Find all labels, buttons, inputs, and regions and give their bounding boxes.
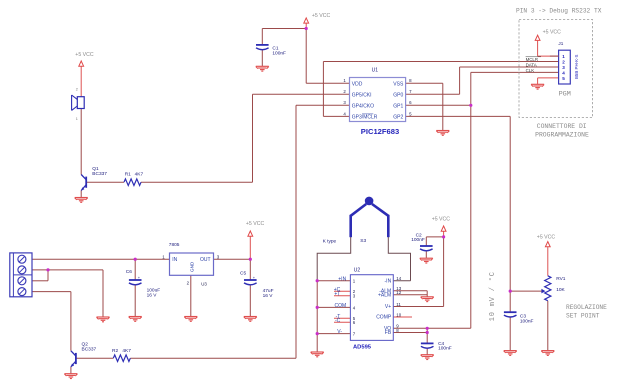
- svg-text:3: 3: [562, 65, 565, 70]
- wire buzzer to Q1 collector: [80, 109, 82, 175]
- wire C5 bottom lead to ground: [249, 285, 251, 317]
- junction V+/C2: [442, 235, 445, 238]
- svg-text:BC337: BC337: [92, 171, 107, 177]
- wire +IN to U2 pin 1: [317, 280, 350, 282]
- wire U2 pin 12 +ALM and tie to ground: [393, 291, 427, 297]
- net label MCLR: [526, 57, 541, 62]
- note PIN 3 debug: [516, 8, 602, 15]
- net label CLK: [526, 68, 535, 73]
- wire +5VCC stem to RV1 top: [547, 247, 549, 276]
- wire C2 branch: [426, 237, 443, 246]
- svg-text:OUT: OUT: [200, 257, 211, 263]
- svg-text:V+: V+: [385, 304, 391, 310]
- wire U2 pin 11 V+ horizontal: [393, 306, 443, 308]
- svg-text:1: 1: [76, 117, 78, 121]
- wire left bus vertical to ground: [316, 281, 318, 352]
- ground under C4: [421, 355, 434, 360]
- U2 pin 3 +T: [334, 291, 355, 298]
- pin stub U2 pin 6 -C: [334, 321, 350, 323]
- wire terminal row2 to ground riser: [32, 270, 103, 317]
- svg-text:-C: -C: [335, 318, 341, 324]
- svg-text:6: 6: [409, 100, 412, 105]
- svg-text:+5 VCC: +5 VCC: [543, 30, 562, 36]
- svg-text:AD595: AD595: [353, 344, 372, 350]
- wire U2 pin 9 VO to CLK riser: [393, 327, 471, 329]
- svg-text:COMP: COMP: [376, 315, 392, 321]
- svg-text:PIN 3 -> Debug RS232 TX: PIN 3 -> Debug RS232 TX: [516, 8, 602, 15]
- svg-text:5: 5: [409, 111, 412, 116]
- ground under C5: [244, 317, 257, 322]
- ground under 7805: [184, 317, 197, 322]
- svg-text:1: 1: [162, 254, 165, 259]
- power +5VCC arrow at node A: [304, 13, 331, 23]
- svg-text:B5B PH-K-S: B5B PH-K-S: [574, 55, 579, 79]
- svg-text:1: 1: [343, 78, 346, 83]
- svg-text:DATA: DATA: [526, 62, 537, 67]
- J1 pin 5: [562, 76, 565, 81]
- svg-text:COM: COM: [335, 303, 347, 309]
- wire 7805 OUT to +5 node: [214, 258, 251, 260]
- svg-text:5: 5: [562, 76, 565, 81]
- op-amp U2 AD595 body: [350, 267, 393, 350]
- wire vertical R1 node to GP5 row: [252, 94, 254, 182]
- U2 pin 13 -ALM: [379, 286, 401, 294]
- svg-text:+T: +T: [334, 291, 340, 297]
- U2 pin 8 FB: [385, 328, 399, 336]
- wire U2 pin 13 -ALM: [393, 290, 427, 292]
- U1 pin 6 GP1: [393, 100, 412, 109]
- svg-text:PIC12F683: PIC12F683: [361, 127, 399, 136]
- power +5VCC arrow above buzzer: [75, 52, 94, 66]
- svg-text:11: 11: [396, 302, 401, 307]
- wire terminal row4 horizontal: [32, 291, 71, 293]
- svg-text:CLK: CLK: [526, 68, 535, 73]
- wire terminal row3 tie to row2: [32, 270, 48, 281]
- svg-text:4: 4: [343, 111, 346, 116]
- wire MCLR vertical riser: [322, 62, 324, 117]
- ground under C3: [504, 351, 517, 356]
- svg-text:Q2: Q2: [82, 342, 89, 348]
- wire GP4 vertical down to R2 row: [295, 105, 297, 358]
- svg-text:GP0: GP0: [393, 92, 403, 98]
- wire +5VCC arrow stem above V+: [443, 231, 445, 237]
- ground under U2 V- bus: [311, 352, 324, 357]
- wire U1 pin 7 GP0 horizontal: [406, 93, 460, 95]
- svg-text:+5 VCC: +5 VCC: [312, 13, 331, 19]
- U1 pin 7 GP0: [393, 89, 412, 98]
- svg-text:3: 3: [343, 100, 346, 105]
- wire node A down to VDD row: [305, 29, 307, 84]
- U2 pin 7 V-: [337, 329, 356, 336]
- wire U1 pin 6 GP1 horizontal: [406, 104, 471, 106]
- svg-text:100uF: 100uF: [147, 287, 161, 293]
- svg-text:+5 VCC: +5 VCC: [432, 217, 451, 223]
- svg-text:S3: S3: [360, 238, 366, 244]
- ground under RV1: [541, 351, 554, 356]
- svg-text:3: 3: [217, 254, 220, 259]
- svg-text:100nF: 100nF: [438, 346, 452, 352]
- resistor R1 4K7: [124, 172, 143, 186]
- pin stub U2 pin 3 +T: [334, 295, 350, 297]
- wire VO/FB tie down to C4: [426, 328, 428, 343]
- U1 pin 3 GP4/CKO: [343, 100, 374, 109]
- node A junction dot: [305, 27, 308, 30]
- svg-text:K type: K type: [323, 238, 337, 244]
- pin stub U2 pin 2 +C: [334, 290, 350, 292]
- svg-text:100nF: 100nF: [520, 318, 534, 324]
- svg-text:C5: C5: [240, 270, 246, 276]
- svg-text:MCLR: MCLR: [526, 57, 538, 62]
- wire C3 bottom lead to ground: [509, 317, 511, 350]
- capacitor C6 100uF polarized: [126, 269, 160, 299]
- svg-text:47uF: 47uF: [263, 288, 274, 294]
- ground under VSS: [436, 131, 449, 136]
- wire C3 top lead: [509, 291, 511, 312]
- wire DATA net to J1 pin 3: [460, 66, 559, 68]
- svg-text:16 V: 16 V: [147, 293, 158, 299]
- ground under Q1: [75, 198, 88, 203]
- U2 pin 4 COM: [335, 303, 356, 310]
- svg-text:V-: V-: [337, 329, 342, 335]
- capacitor C4 100nF: [421, 341, 452, 352]
- svg-text:12: 12: [396, 290, 401, 295]
- J1 pin 4: [562, 70, 565, 75]
- ground under Q2: [64, 374, 77, 379]
- J1 pin 2: [562, 59, 565, 64]
- junction +5 rail node: [249, 258, 252, 261]
- svg-text:+ALM: +ALM: [378, 292, 391, 298]
- wire GP2 vertical down to RV1 row: [509, 116, 511, 291]
- svg-text:R1: R1: [125, 172, 131, 178]
- wire terminal row4 down to Q2 collector: [70, 292, 72, 351]
- svg-text:RV1: RV1: [556, 276, 566, 282]
- svg-text:GP2: GP2: [393, 114, 403, 120]
- U2 pin 2 +C: [334, 287, 356, 294]
- wire +5VCC stem to buzzer: [80, 66, 82, 96]
- wire U1 pin 8 VSS horizontal: [406, 82, 443, 84]
- U1 pin 8 VSS: [393, 78, 412, 87]
- wire thermocouple right leg to -IN: [388, 237, 410, 281]
- pin stub U2 pin 5 -T: [334, 317, 350, 319]
- svg-text:10: 10: [396, 312, 401, 317]
- power +5VCC arrow above 7805 OUT: [246, 221, 265, 236]
- wire J1 pin 5 to ground: [538, 78, 559, 84]
- op-amp U1 PIC12F683 body: [350, 67, 406, 136]
- svg-text:GP4/CKO: GP4/CKO: [352, 103, 374, 109]
- wire V- to U2 pin 7: [317, 333, 350, 335]
- svg-text:+5 VCC: +5 VCC: [537, 235, 556, 241]
- wire R2 to GP4 riser: [130, 357, 296, 359]
- svg-text:100nF: 100nF: [272, 50, 286, 56]
- potentiometer RV1 10K: [541, 276, 565, 301]
- U2 pin 12 +ALM: [378, 290, 402, 298]
- power +5VCC arrow above V+: [432, 217, 451, 232]
- svg-text:2: 2: [187, 281, 190, 286]
- svg-text:2: 2: [343, 89, 346, 94]
- junction COM node: [316, 306, 319, 309]
- wire CLK net to J1 pin 4: [471, 71, 559, 73]
- transistor Q2 BC337: [71, 342, 97, 367]
- note REGOLAZIONE SET POINT: [566, 304, 607, 319]
- svg-text:CONNETTORE DI: CONNETTORE DI: [537, 123, 587, 130]
- junction V- node: [316, 332, 319, 335]
- svg-text:SET POINT: SET POINT: [566, 312, 600, 319]
- svg-text:+5 VCC: +5 VCC: [75, 52, 94, 58]
- ground terminal rows 2-3: [97, 317, 110, 322]
- svg-text:+5 VCC: +5 VCC: [246, 221, 265, 227]
- ground under ALM pins: [421, 297, 434, 302]
- svg-text:VSS: VSS: [393, 81, 404, 87]
- junction GP1/CLK/VO: [469, 104, 472, 107]
- svg-text:7: 7: [409, 89, 412, 94]
- U2 pin 14 -IN: [385, 276, 402, 284]
- wire C2 bottom lead to ground: [425, 251, 427, 258]
- resistor R2 4K7: [112, 348, 131, 361]
- power +5VCC arrow in J1 box: [535, 30, 561, 41]
- note CONNETTORE DI PROGRAMMAZIONE: [535, 123, 589, 139]
- svg-text:GND: GND: [190, 261, 195, 272]
- terminal block J2: [10, 253, 32, 297]
- wire Q1 base to R1: [86, 181, 124, 183]
- wire terminal row1 to 7805 IN: [32, 258, 170, 260]
- svg-text:4: 4: [562, 70, 565, 75]
- wire RV1 bottom to ground: [547, 301, 549, 351]
- U2 pin 1 +IN: [338, 276, 356, 283]
- svg-text:U3: U3: [201, 281, 207, 286]
- power +5VCC arrow above RV1: [537, 235, 556, 247]
- junction terminal rows 2-3: [46, 268, 49, 271]
- capacitor C5 47uF polarized: [240, 270, 274, 299]
- svg-text:8: 8: [409, 78, 412, 83]
- dashed programming box: [519, 20, 593, 118]
- svg-text:4K7: 4K7: [122, 348, 131, 354]
- wire COM to U2 pin 4: [317, 306, 350, 308]
- svg-text:GP1: GP1: [393, 103, 403, 109]
- transistor Q1 BC337: [81, 166, 107, 191]
- wire C1 bottom lead to ground: [261, 50, 263, 66]
- U2 pin 6 -C: [335, 318, 356, 325]
- wire C1 top lead: [261, 29, 263, 45]
- svg-text:GP5/CKI: GP5/CKI: [352, 92, 372, 98]
- wire Q2 base to R2: [76, 357, 113, 359]
- J1 pin 1: [550, 54, 565, 59]
- wire +5VCC arrow stem above OUT node: [249, 236, 251, 259]
- ground under C1: [256, 66, 269, 71]
- capacitor C3 100nF: [504, 312, 534, 324]
- svg-text:VDD: VDD: [352, 81, 363, 87]
- wire GP4 horizontal to U1 pin 3: [296, 104, 350, 106]
- svg-text:C6: C6: [126, 269, 132, 275]
- junction C6 node: [134, 258, 137, 261]
- U2 pin 10 COMP: [376, 312, 402, 320]
- junction +IN node: [316, 279, 319, 282]
- wire C5 top lead: [249, 259, 251, 280]
- svg-text:PROGRAMMAZIONE: PROGRAMMAZIONE: [535, 132, 589, 139]
- U2 pin 9 VO: [384, 324, 399, 332]
- svg-text:U2: U2: [354, 267, 361, 273]
- U1 pin 4 GP3/MCLR: [343, 111, 377, 120]
- connector J1 PGM body: [558, 41, 579, 98]
- wire U2 pin 8 FB: [393, 332, 427, 334]
- svg-text:14: 14: [396, 276, 401, 281]
- note 10 mV / degC: [488, 271, 497, 321]
- ground under C2: [420, 258, 433, 263]
- svg-text:7805: 7805: [169, 242, 180, 248]
- wire C1 to +5VCC node A: [262, 28, 306, 30]
- wire GP5 horizontal to U1 pin 2: [253, 93, 350, 95]
- svg-text:+IN: +IN: [338, 276, 346, 282]
- svg-text:-IN: -IN: [385, 278, 392, 284]
- capacitor C1 100nF: [256, 45, 286, 57]
- svg-text:J1: J1: [558, 41, 563, 46]
- svg-text:FB: FB: [385, 330, 392, 336]
- wire R1 to node under GP5: [141, 181, 253, 183]
- capacitor C2 100nF: [411, 233, 432, 251]
- wire Q2 emitter to ground: [70, 367, 72, 374]
- net label DATA: [526, 62, 537, 67]
- U1 pin 1 VDD: [343, 78, 362, 87]
- J1 pin 3: [562, 65, 565, 70]
- junction GP2/RV1/C3: [509, 290, 512, 293]
- junction VO node: [426, 327, 429, 330]
- svg-text:4K7: 4K7: [135, 172, 144, 178]
- wire U1 pin 5 GP2 horizontal: [406, 115, 511, 117]
- svg-text:10 mV / °C: 10 mV / °C: [488, 271, 497, 321]
- svg-text:IN: IN: [172, 257, 177, 263]
- svg-text:2: 2: [562, 59, 565, 64]
- svg-text:U1: U1: [372, 67, 379, 73]
- U1 pin 5 GP2: [393, 111, 412, 120]
- wire C6 top lead: [134, 259, 136, 280]
- wire RV1 wiper from GP2 node: [510, 290, 542, 292]
- U2 pin 11 V+: [385, 302, 401, 310]
- regulator U3 7805 body: [162, 242, 220, 286]
- wire C6 bottom lead to ground: [134, 285, 136, 317]
- svg-text:2: 2: [76, 88, 78, 92]
- wire C4 bottom lead to ground: [426, 348, 428, 354]
- wire VDD to U1 pin 1: [306, 82, 349, 84]
- wire VSS down to ground: [442, 83, 444, 130]
- wire MCLR net to J1 pin 2: [323, 61, 558, 63]
- wire thermocouple left leg to +IN node: [317, 237, 351, 281]
- svg-text:16 V: 16 V: [263, 293, 274, 299]
- svg-text:R2: R2: [112, 348, 118, 354]
- wire CLK / VO long vertical: [470, 72, 472, 328]
- svg-text:REGOLAZIONE: REGOLAZIONE: [566, 304, 607, 311]
- ground under J1 pin 5: [531, 84, 544, 89]
- junction FB node: [426, 331, 429, 334]
- wire DATA vertical riser: [459, 67, 461, 94]
- wire +5VCC arrow stem at node A: [305, 23, 307, 28]
- svg-text:100nF: 100nF: [411, 237, 425, 243]
- svg-text:GP3/MCLR: GP3/MCLR: [352, 114, 378, 120]
- svg-text:10K: 10K: [556, 287, 565, 293]
- U1 pin 2 GP5/CKI: [343, 89, 371, 98]
- wire 7805 GND pin to ground: [190, 275, 192, 316]
- U2 pin 5 -T: [336, 314, 356, 321]
- pin stub U2 pin 10 COMP: [393, 316, 412, 318]
- svg-text:1: 1: [562, 54, 565, 59]
- thermocouple S3 K type: [323, 197, 389, 245]
- buzzer LS1: [72, 88, 85, 121]
- svg-text:BC337: BC337: [82, 347, 97, 353]
- svg-text:PGM: PGM: [559, 90, 571, 98]
- wire Q1 emitter to ground: [80, 191, 82, 198]
- wire U1 pin 4 GP3/MCLR stub: [323, 115, 349, 117]
- wire J1 +5VCC stem: [538, 41, 559, 56]
- wire V+ vertical riser: [443, 237, 445, 307]
- ground under C6: [129, 317, 142, 322]
